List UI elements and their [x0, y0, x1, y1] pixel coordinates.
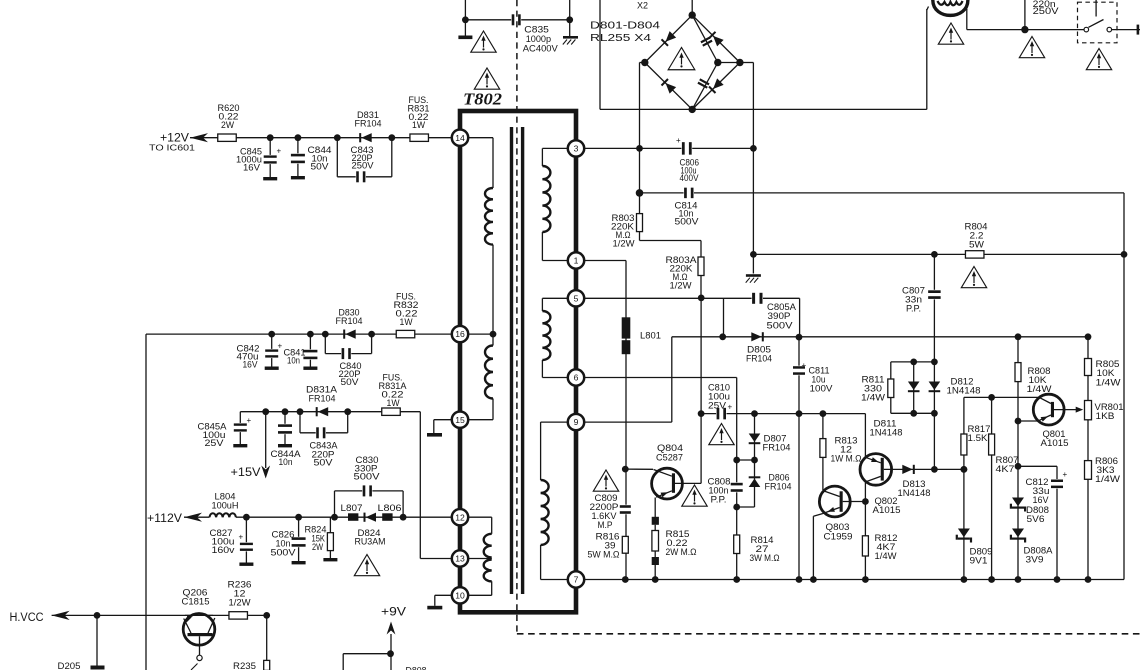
svg-text:D808: D808 — [406, 666, 427, 670]
svg-text:FR104: FR104 — [355, 118, 382, 128]
svg-text:50V: 50V — [341, 377, 360, 387]
svg-text:250V: 250V — [1033, 6, 1060, 16]
svg-text:3: 3 — [574, 144, 579, 154]
svg-text:FR104: FR104 — [309, 394, 336, 404]
svg-text:500V: 500V — [675, 217, 700, 227]
svg-text:4K7: 4K7 — [996, 464, 1015, 474]
svg-text:500V: 500V — [271, 548, 297, 558]
svg-text:1N4148: 1N4148 — [870, 428, 903, 438]
svg-text:10K: 10K — [1097, 368, 1116, 378]
svg-text:16: 16 — [455, 329, 465, 339]
svg-text:+: + — [802, 361, 807, 370]
svg-text:FR104: FR104 — [336, 316, 363, 326]
svg-text:+: + — [676, 136, 681, 145]
svg-text:+: + — [1063, 470, 1068, 479]
svg-text:16V: 16V — [243, 163, 261, 173]
svg-text:2W: 2W — [221, 120, 234, 130]
svg-text:Q803: Q803 — [826, 522, 850, 532]
svg-text:C1815: C1815 — [182, 597, 210, 607]
svg-text:A1015: A1015 — [1041, 438, 1069, 448]
svg-text:2W: 2W — [312, 542, 323, 552]
svg-text:390P: 390P — [768, 311, 791, 321]
svg-text:3W M.Ω: 3W M.Ω — [750, 553, 780, 563]
svg-text:1N4148: 1N4148 — [898, 488, 931, 498]
svg-text:9: 9 — [574, 417, 579, 427]
svg-text:50V: 50V — [311, 162, 330, 172]
svg-text:7: 7 — [574, 575, 579, 585]
svg-text:10n: 10n — [279, 457, 293, 467]
svg-text:1W: 1W — [412, 120, 425, 130]
svg-text:500V: 500V — [767, 321, 794, 331]
svg-text:2W M.Ω: 2W M.Ω — [666, 547, 697, 557]
svg-text:L806: L806 — [378, 503, 402, 513]
svg-text:+: + — [278, 342, 283, 351]
svg-text:C1959: C1959 — [824, 532, 853, 542]
svg-text:+: + — [247, 416, 252, 425]
svg-text:160v: 160v — [212, 545, 235, 555]
svg-text:500V: 500V — [354, 472, 381, 482]
svg-text:1W M.Ω: 1W M.Ω — [831, 454, 862, 464]
svg-text:FR104: FR104 — [746, 354, 772, 364]
svg-text:TO IC601: TO IC601 — [149, 144, 196, 153]
svg-text:25V: 25V — [205, 438, 225, 448]
svg-text:X2: X2 — [637, 1, 648, 11]
svg-text:D205: D205 — [58, 661, 81, 670]
svg-text:1KB: 1KB — [1096, 411, 1115, 421]
svg-text:R235: R235 — [233, 661, 256, 670]
svg-text:1/4W: 1/4W — [1096, 378, 1121, 388]
svg-text:25V: 25V — [708, 401, 727, 411]
svg-text:+: + — [728, 403, 733, 412]
svg-text:1/4W: 1/4W — [1027, 384, 1052, 394]
svg-text:100V: 100V — [810, 384, 834, 394]
svg-text:1W: 1W — [387, 398, 400, 408]
svg-text:5V6: 5V6 — [1027, 514, 1045, 524]
svg-text:+: + — [277, 147, 282, 156]
svg-text:9V1: 9V1 — [970, 556, 988, 566]
svg-text:1/2W: 1/2W — [229, 598, 251, 608]
svg-text:RU3AM: RU3AM — [355, 537, 386, 547]
svg-text:L807: L807 — [341, 503, 363, 513]
svg-text:10n: 10n — [287, 356, 300, 366]
svg-text:+9V: +9V — [381, 605, 407, 619]
svg-text:1.5K: 1.5K — [968, 433, 989, 443]
svg-text:1N4148: 1N4148 — [947, 386, 981, 396]
svg-text:FR104: FR104 — [763, 443, 791, 453]
svg-text:100uH: 100uH — [212, 501, 239, 511]
svg-text:1/2W: 1/2W — [670, 281, 692, 291]
svg-text:50V: 50V — [314, 458, 334, 468]
svg-text:16V: 16V — [1033, 495, 1050, 505]
svg-text:Q804: Q804 — [657, 443, 683, 453]
svg-text:L801: L801 — [640, 331, 661, 341]
svg-text:5W: 5W — [969, 240, 984, 250]
svg-text:H.VCC: H.VCC — [10, 610, 44, 624]
svg-text:P.P.: P.P. — [711, 495, 727, 505]
svg-text:FR104: FR104 — [765, 482, 792, 492]
svg-text:16V: 16V — [243, 360, 259, 370]
svg-text:+: + — [239, 533, 244, 542]
svg-text:A1015: A1015 — [873, 505, 901, 515]
svg-text:RL255 X4: RL255 X4 — [590, 33, 652, 44]
svg-text:15: 15 — [455, 415, 465, 425]
svg-text:1: 1 — [574, 256, 579, 266]
svg-text:3V9: 3V9 — [1026, 555, 1044, 565]
svg-text:400V: 400V — [680, 173, 700, 183]
svg-text:1/4W: 1/4W — [1095, 474, 1120, 484]
svg-text:+15V: +15V — [231, 465, 262, 479]
svg-text:10: 10 — [455, 590, 465, 600]
svg-text:C5287: C5287 — [656, 453, 683, 463]
svg-text:250V: 250V — [352, 161, 375, 171]
svg-text:12: 12 — [455, 512, 465, 522]
svg-text:1W: 1W — [400, 317, 413, 327]
svg-text:5W M.Ω: 5W M.Ω — [588, 550, 620, 560]
svg-text:+112V: +112V — [147, 511, 183, 525]
svg-text:1/2W: 1/2W — [613, 239, 635, 249]
svg-text:T802: T802 — [463, 90, 502, 109]
svg-text:5: 5 — [574, 293, 579, 303]
svg-text:P.P.: P.P. — [906, 304, 921, 314]
svg-text:14: 14 — [455, 133, 465, 143]
svg-text:M.P: M.P — [598, 520, 613, 530]
svg-text:+12V: +12V — [160, 131, 190, 145]
svg-text:1/4W: 1/4W — [861, 393, 885, 403]
svg-text:D801-D804: D801-D804 — [590, 21, 661, 32]
svg-text:1/4W: 1/4W — [875, 551, 897, 561]
svg-text:AC400V: AC400V — [523, 43, 559, 53]
svg-text:6: 6 — [574, 373, 579, 383]
svg-text:13: 13 — [455, 554, 465, 564]
svg-text:C835: C835 — [524, 24, 549, 34]
